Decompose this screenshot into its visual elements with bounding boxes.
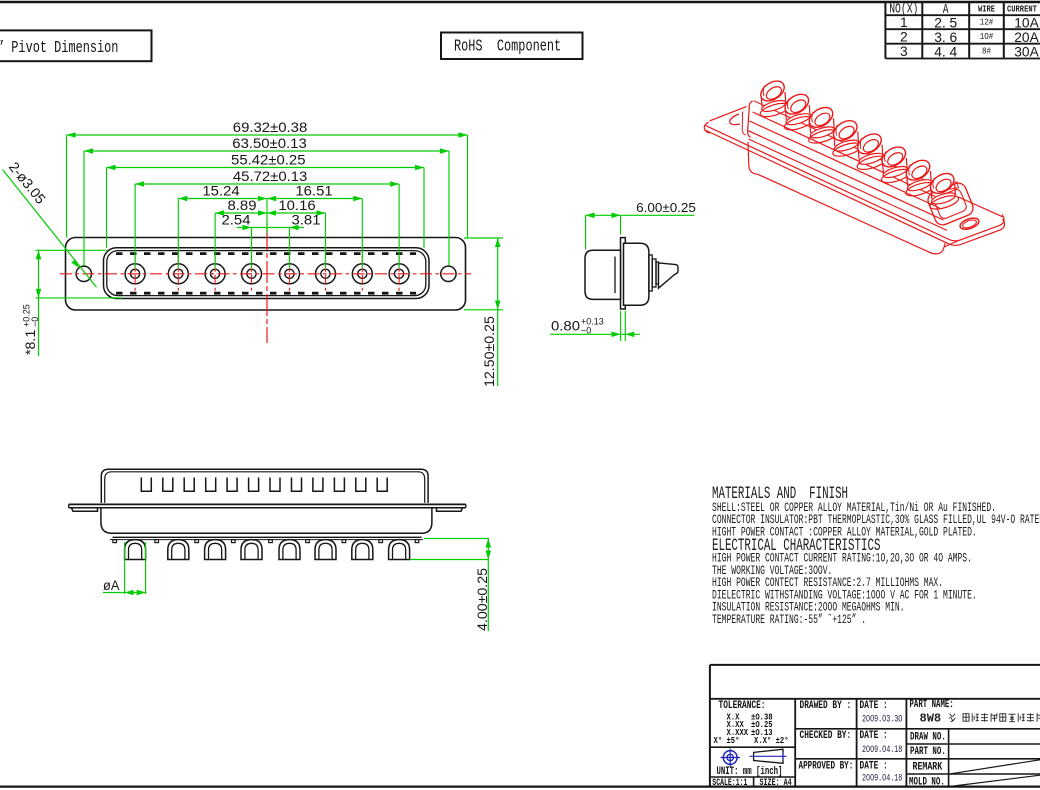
dimension *8.1 +0.25/-0: [22, 250, 123, 356]
svg-text:3.81: 3.81: [292, 213, 321, 229]
side view: cup body left: [585, 250, 621, 299]
side view: collar step 2: [652, 259, 656, 287]
front view D-shell outer outline: [104, 248, 430, 299]
rear view: solder cup 3: [205, 540, 226, 560]
vertical centerline (red): [266, 228, 268, 343]
contact 7 outer ring: [352, 264, 372, 284]
3D view: pin 1: [757, 77, 790, 119]
side view: collar step 3: [656, 262, 659, 284]
svg-text:øA: øA: [103, 578, 120, 593]
svg-text:” Pivot Dimension: ” Pivot Dimension: [0, 39, 118, 57]
svg-text:UNIT: mm [inch]: UNIT: mm [inch]: [717, 764, 783, 777]
svg-text:PART NO.: PART NO.: [910, 745, 946, 758]
sheet top border: [0, 1, 1040, 4]
svg-text:PART NAME:: PART NAME:: [910, 698, 954, 711]
svg-text:8#: 8#: [982, 47, 991, 57]
leader dimension 2-diam 3.05: [3, 159, 97, 287]
mounting hole right: [441, 266, 456, 281]
svg-text:X° ±5°: X° ±5°: [714, 737, 740, 747]
dimension 55.42+/-0.25: [107, 153, 425, 171]
rear view: flange end cap left: [72, 508, 98, 512]
dimension 2.54 / 3.81: [222, 213, 321, 233]
svg-text:1: 1: [900, 15, 908, 30]
dimension 8.89 / 10.16: [215, 198, 325, 216]
svg-text:2: 2: [900, 30, 908, 45]
contact centerlines (red): [135, 256, 399, 292]
svg-text:4. 4: 4. 4: [934, 44, 957, 59]
3D view: body right end face: [926, 181, 976, 228]
3D view: ear mounting hole: [959, 216, 981, 231]
svg-text:2OO9.O4.18: 2OO9.O4.18: [862, 772, 902, 784]
materials and finish text block: [712, 485, 1040, 628]
svg-text:DATE :: DATE :: [860, 759, 888, 772]
svg-text:DRAW NO.: DRAW NO.: [910, 730, 946, 743]
3D view: pin 4: [830, 117, 863, 159]
rear view: solder cup 2: [168, 540, 189, 560]
3D view: flange plate outline: [704, 107, 1004, 241]
extension lines front view: [67, 135, 468, 268]
contact 4 outer ring: [242, 264, 262, 284]
rear view: flange end cap right: [437, 508, 463, 512]
svg-text:63.50±0.13: 63.50±0.13: [232, 136, 306, 152]
part name: 8W8 male chinese description: [920, 712, 1040, 726]
svg-text:*8.1: *8.1: [23, 330, 39, 355]
svg-text:12#: 12#: [980, 18, 994, 28]
rear view: solder cup 8: [389, 540, 410, 560]
3D view: pin 7: [903, 156, 936, 198]
svg-text:SIZE: A4: SIZE: A4: [760, 777, 793, 789]
svg-text:0.80: 0.80: [551, 319, 580, 335]
3D view: pin 2: [781, 90, 814, 132]
svg-text:X.X° ±2°: X.X° ±2°: [754, 737, 789, 747]
part info labels: [909, 698, 954, 788]
contact 3 outer ring: [205, 264, 225, 284]
side view: cup inner edge: [614, 257, 616, 294]
side view: collar step 1: [649, 255, 652, 291]
svg-text:8.89: 8.89: [228, 198, 257, 214]
svg-text:MOLD NO.: MOLD NO.: [909, 775, 945, 788]
svg-text:−0: −0: [581, 326, 591, 336]
front view flange outline: [66, 238, 466, 311]
3D view: pin 3: [806, 103, 839, 145]
dimension 45.72+/-0.13: [135, 169, 399, 187]
dimension diam A: [103, 542, 146, 595]
rear view: solder cup 6: [315, 540, 336, 560]
tolerance cell text: [714, 699, 789, 747]
svg-text:8W8: 8W8: [920, 712, 942, 726]
svg-text:16.51: 16.51: [295, 184, 332, 200]
svg-text:2OO9.O4.18: 2OO9.O4.18: [862, 744, 902, 756]
side view: body right: [624, 243, 649, 305]
contact 1 outer ring: [125, 264, 145, 284]
3D view: left ear hole arc: [730, 114, 740, 125]
title block frame: [710, 665, 1040, 787]
svg-text:CHECKED BY:: CHECKED BY:: [800, 729, 852, 742]
3D view: body left end face: [742, 101, 753, 137]
contact 5 inner ring: [285, 269, 294, 278]
svg-text:CURRENT RATING: CURRENT RATING: [1007, 5, 1040, 15]
shell serration dashes bottom: [116, 292, 416, 295]
svg-text:DRAWED BY :: DRAWED BY :: [800, 699, 852, 712]
rear view: insulator feet: [113, 540, 419, 543]
side view: contact flange plate: [621, 238, 626, 309]
contact 7 inner ring: [358, 269, 367, 278]
svg-text:WIRE: WIRE: [978, 5, 995, 15]
dimension 6.00 +/-0.25: [586, 200, 696, 250]
contact 8 outer ring: [389, 264, 409, 284]
svg-text:20A: 20A: [1014, 30, 1039, 45]
3D view: pin 6: [878, 143, 911, 185]
dimension 12.50 +/-0.25: [464, 238, 503, 387]
3D view: body long edges: [748, 101, 947, 231]
svg-text:45.72±0.13: 45.72±0.13: [233, 169, 307, 185]
svg-text:DATE :: DATE :: [860, 729, 888, 742]
horizontal centerline (red): [60, 273, 471, 275]
rear view: flange lines: [69, 504, 466, 507]
wire gauge table: [885, 1, 1040, 59]
svg-text:30A: 30A: [1014, 44, 1039, 59]
3D view: pin 5: [854, 130, 887, 172]
rear view: shell inner line: [105, 472, 425, 503]
svg-text:69.32±0.38: 69.32±0.38: [233, 120, 307, 136]
svg-text:SCALE:1:1: SCALE:1:1: [712, 777, 747, 789]
svg-text:REMARK: REMARK: [913, 760, 943, 772]
svg-text:6.00±0.25: 6.00±0.25: [636, 200, 696, 215]
dates: [862, 713, 902, 784]
contact 2 inner ring: [174, 269, 183, 278]
svg-text:10.16: 10.16: [278, 198, 315, 214]
remark / mold diagonal lines: [951, 760, 1040, 787]
rear view: insulator base line: [113, 536, 422, 538]
contact 6 outer ring: [316, 264, 336, 284]
3D view: flange plate thickness edge: [705, 130, 1005, 245]
pivot dimension label box: [0, 30, 152, 61]
dimension 15.24 / 16.51: [178, 184, 362, 202]
dimension 63.50+/-0.13: [84, 136, 449, 154]
rear view: solder cup 7: [352, 540, 373, 560]
svg-text:TEMPERATURE RATING:-55” ˜+125”: TEMPERATURE RATING:-55” ˜+125” .: [712, 613, 866, 628]
side view: pin tip wedge: [659, 263, 679, 288]
dimension 69.32+/-0.38: [67, 120, 468, 138]
mounting hole left: [76, 266, 91, 281]
svg-text:2. 5: 2. 5: [934, 15, 957, 30]
svg-text:10A: 10A: [1014, 15, 1039, 30]
svg-text:RoHS Component: RoHS Component: [454, 38, 561, 56]
svg-text:3. 6: 3. 6: [934, 30, 957, 45]
rear view: solder cup 4: [241, 540, 262, 560]
svg-text:TOLERANCE:: TOLERANCE:: [719, 699, 766, 712]
rear view: 12 crimp slots: [141, 478, 387, 492]
svg-text:2OO9.O3.3O: 2OO9.O3.3O: [862, 713, 902, 725]
sheet bottom border: [0, 785, 1040, 787]
contact 1 inner ring: [131, 269, 140, 278]
3D view: pin 8: [927, 169, 960, 211]
rear view: shell outer: [101, 469, 428, 503]
unit / scale row: [712, 764, 792, 788]
contact 3 inner ring: [211, 269, 220, 278]
svg-text:APPROVED BY:: APPROVED BY:: [799, 759, 854, 772]
3D view: rear skirt outline: [748, 142, 960, 254]
shell serration dashes top: [116, 252, 416, 255]
svg-text:12.50±0.25: 12.50±0.25: [482, 316, 498, 387]
svg-text:4.00±0.25: 4.00±0.25: [475, 568, 491, 631]
front view D-shell inner outline: [107, 251, 426, 296]
svg-text:1O#: 1O#: [980, 33, 994, 43]
dimension 0.80 +0.13/-0: [550, 311, 640, 341]
contact 5 outer ring: [280, 264, 300, 284]
contact 2 outer ring: [168, 264, 188, 284]
third angle projection symbol: [721, 749, 741, 767]
svg-text:−0: −0: [30, 317, 40, 327]
svg-text:55.42±0.25: 55.42±0.25: [231, 153, 305, 169]
svg-text:3: 3: [900, 44, 908, 59]
RoHS component label box: [441, 33, 583, 60]
contact 4 inner ring: [247, 269, 256, 278]
cone symbol: [750, 749, 787, 763]
rear view: solder cup 5: [279, 540, 300, 560]
contact 6 inner ring: [321, 269, 330, 278]
rear view: lower body: [101, 508, 432, 534]
contact 8 inner ring: [395, 269, 404, 278]
rear view: solder cup 1: [125, 540, 146, 560]
svg-text:2.54: 2.54: [222, 213, 251, 229]
drawn/checked/approved labels: [799, 699, 888, 772]
svg-text:15.24: 15.24: [202, 184, 239, 200]
dimension 4.00 +/-0.25: [410, 539, 491, 632]
svg-text:DATE :: DATE :: [860, 699, 888, 712]
rear view: base lower line: [110, 539, 423, 541]
